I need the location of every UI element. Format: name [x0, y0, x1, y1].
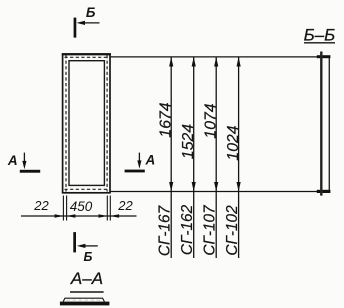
svg-text:22: 22 — [33, 198, 49, 213]
svg-text:СГ-107: СГ-107 — [202, 204, 219, 256]
section А-А: black base plate — [60, 302, 110, 306]
bottom dimension: extension line 1 — [62, 196, 64, 221]
dimension line 4 (1024 / СГ-102) — [237, 57, 241, 258]
dimension line 3 (1074 / СГ-107) — [214, 57, 218, 258]
frame inner rectangle — [69, 61, 104, 186]
svg-text:Б: Б — [86, 5, 96, 20]
arrow right-facing at 63.4 — [55, 214, 64, 218]
svg-text:Б: Б — [83, 250, 92, 264]
section А-А: inner dashed line — [67, 299, 102, 301]
svg-text:СГ-162: СГ-162 — [179, 204, 196, 255]
svg-text:А: А — [7, 153, 18, 168]
underline of Б-Б — [304, 42, 335, 44]
bottom dimension: extension line 4 — [109, 196, 111, 221]
frame outer rectangle — [63, 54, 110, 193]
svg-text:1024: 1024 — [225, 125, 242, 160]
section marker А right: arrow — [137, 153, 141, 169]
bottom leader line — [110, 191, 321, 193]
section B-B bar: left flange line — [320, 52, 322, 196]
section А-А: top profile outline — [63, 298, 104, 301]
section marker Б top: bar — [74, 18, 77, 38]
svg-text:Б–Б: Б–Б — [304, 25, 336, 44]
section marker Б bottom: arrow — [77, 244, 98, 248]
svg-text:1674: 1674 — [157, 102, 174, 137]
dimension line 1 (1674 / СГ-167) — [169, 57, 173, 258]
bottom dimension: extension line 2 — [66, 196, 68, 221]
svg-text:1524: 1524 — [180, 124, 197, 159]
section marker Б bottom: bar — [73, 232, 76, 252]
section B-B bar: top cap — [317, 55, 331, 58]
svg-text:1074: 1074 — [203, 103, 220, 138]
underline of А-А — [70, 291, 104, 293]
svg-text:А–А: А–А — [70, 269, 103, 288]
svg-text:СГ-167: СГ-167 — [157, 204, 174, 256]
section marker А left: arrow — [22, 153, 26, 170]
dimension line 2 (1524 / СГ-162) — [192, 57, 196, 258]
arrow left-facing at 110.3 — [110, 214, 119, 218]
bottom dimension: extension line 3 — [106, 196, 108, 221]
arrow right-facing at 107.3 — [99, 214, 108, 218]
arrow left-facing at 66.6 — [67, 214, 76, 218]
frame dashed centerline bottom — [65, 188, 109, 190]
section B-B bar: right edge line — [328, 58, 330, 190]
bottom dimension line — [21, 215, 137, 217]
frame dashed centerline left — [65, 55, 67, 192]
section marker А left: bar — [20, 170, 40, 173]
svg-text:22: 22 — [117, 198, 133, 213]
section B-B bar: bottom cap — [317, 190, 331, 193]
frame dashed centerline top — [65, 56, 109, 58]
section marker А right: bar — [125, 170, 145, 173]
section marker Б top: arrow — [76, 21, 99, 25]
svg-text:СГ-102: СГ-102 — [224, 205, 241, 256]
frame dashed centerline right — [106, 55, 108, 192]
svg-text:А: А — [145, 152, 156, 167]
svg-text:450: 450 — [70, 199, 93, 214]
top leader line — [110, 56, 321, 58]
